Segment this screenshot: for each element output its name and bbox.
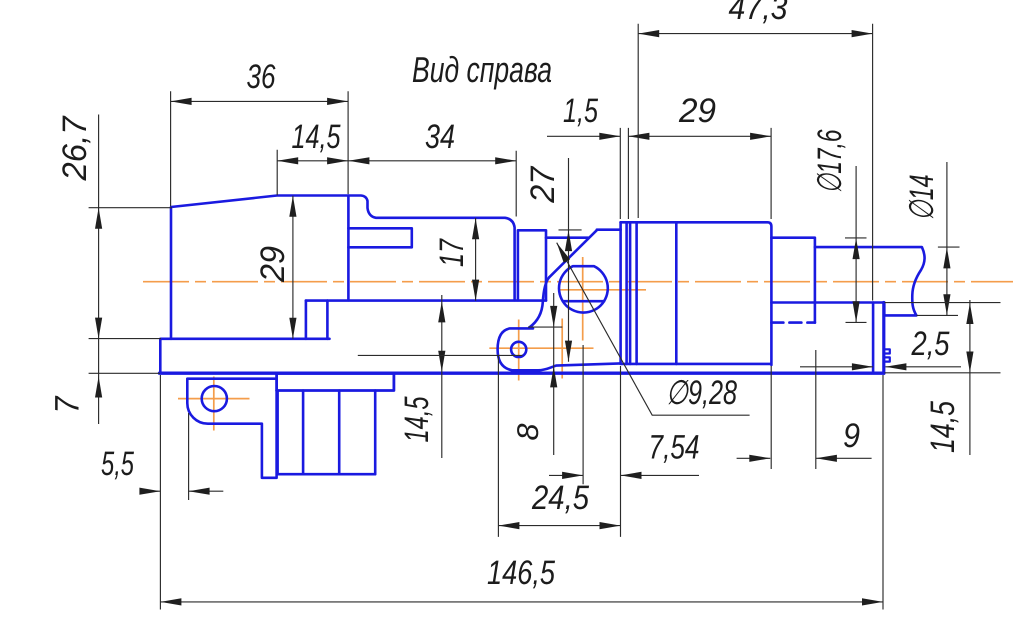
ring line x626 [625,222,628,364]
dimension 5,5 [140,375,223,610]
dimension 14,5 right [885,300,1001,455]
lug2 hole [511,342,526,357]
foot rib under body [306,301,328,339]
mid cylinder section [518,230,546,300]
svg-text:27: 27 [524,166,562,204]
centerline cross lug1 hole [178,377,250,431]
dimension 8 [528,293,562,455]
centerline vertical node x562 [561,319,563,379]
svg-text:14,5: 14,5 [292,118,341,156]
svg-text:14,5: 14,5 [398,396,436,442]
lug1 hole [202,386,227,411]
svg-text:36: 36 [247,58,276,96]
big block outline [621,222,772,365]
dimension 26,7 [89,115,172,425]
svg-text:47,3: 47,3 [729,0,788,27]
svg-text:26,7: 26,7 [56,115,94,181]
main centerline axis [143,281,1013,283]
ribbed box [278,391,376,475]
svg-text:9: 9 [843,417,860,455]
D17.6 hidden bottom dashed [771,321,815,324]
dimension 2,5 [800,366,961,368]
dimension 9 [737,350,872,469]
svg-text:5,5: 5,5 [101,445,134,483]
svg-text:∅14: ∅14 [903,175,941,221]
svg-text:∅9,28: ∅9,28 [666,374,737,412]
dimension D17,6 [845,166,867,322]
dimension 7,54 [549,345,699,484]
base plate top and left [160,339,329,373]
slot on body [348,228,411,247]
lug1 outline [187,379,276,478]
ring face x620 [619,222,622,362]
centerline cross lug2 hole [489,320,593,381]
dimension 34 [348,151,516,217]
dimension 47,3 [638,24,872,301]
dimension 29 horizontal [628,128,771,219]
dimension 14,5 bottom-left [441,295,443,458]
small clamp bump [884,349,890,361]
right plate [873,303,884,374]
shaft D14 top and break [815,247,925,315]
svg-text:14,5: 14,5 [924,401,962,453]
dimension 36 [171,91,349,206]
lug2 outline [498,328,621,370]
bottom bar [277,373,394,390]
svg-text:24,5: 24,5 [531,479,589,517]
dimension 27 [559,158,582,362]
dimension 29 vertical [292,196,294,339]
dimension 17 [475,218,477,301]
svg-text:1,5: 1,5 [563,92,598,130]
dimension 14,5 top [277,150,348,195]
S-curve to lug2 [530,277,550,327]
body edge x348 [347,196,350,301]
dimension D14 [917,162,960,315]
dimension 7 [89,372,160,374]
svg-text:29: 29 [678,92,716,130]
ring line x636 [635,222,638,364]
body left block outline [171,196,515,339]
svg-text:∅17,6: ∅17,6 [811,129,849,193]
centerline cross hole D9.28 [558,257,646,341]
dimension 146,5 [160,375,883,610]
body bottom edge [306,299,546,302]
hole D9.28 truncated circle [559,266,608,312]
svg-text:8: 8 [512,423,545,440]
neck top edge [597,228,621,231]
ring line x630 [629,222,632,364]
svg-text:2,5: 2,5 [911,325,950,363]
cone top edge [546,236,588,239]
dimension 1,5 [547,128,628,219]
dimension 24,5 [498,356,620,537]
svg-text:34: 34 [425,118,455,156]
leader D9,28 [557,243,750,416]
svg-text:146,5: 146,5 [487,554,555,592]
svg-text:17: 17 [433,238,471,267]
shelf edge y302 [771,303,884,316]
svg-text:7,54: 7,54 [649,429,700,467]
svg-text:29: 29 [254,246,292,283]
svg-text:Вид справа: Вид справа [412,49,552,90]
chamfer diagonal [549,230,597,277]
svg-text:7: 7 [49,396,87,414]
block inner edge x676 [675,222,678,364]
extension line y355 [358,354,523,356]
D17.6 section top [771,238,815,323]
base plate bottom edge [160,372,884,375]
